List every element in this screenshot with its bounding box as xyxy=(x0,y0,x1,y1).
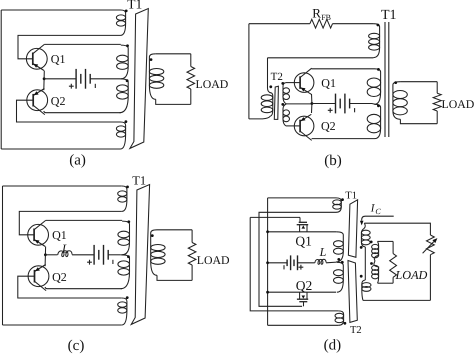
phase dot secondary (b) xyxy=(394,81,397,84)
wire load lead bottom (b) xyxy=(436,111,438,124)
wire load loop top (d) xyxy=(378,240,394,242)
wire emitter junction (a) xyxy=(43,71,46,91)
svg-text:T1: T1 xyxy=(127,0,142,11)
wire node to battery (b) xyxy=(312,103,336,105)
wire T1 top winding to Q2 gate (d) xyxy=(259,212,336,306)
node emitter junction (b) xyxy=(311,102,314,105)
transformer T1 winding W2 (a) xyxy=(122,221,129,255)
wire inductor to battery (c) xyxy=(72,254,94,256)
phase dot T2 winding (d) xyxy=(344,322,347,325)
svg-text:Q2: Q2 xyxy=(321,119,336,133)
variable resistor arrow (d) xyxy=(423,242,434,254)
phase dot T1 top winding (d) xyxy=(341,198,344,201)
wire secondary bottom (b) xyxy=(400,119,437,123)
wire Q2 collector to W3 (a) xyxy=(44,111,121,113)
phase dot secondary (a) xyxy=(150,58,153,61)
wire bottom feedback (a) xyxy=(1,148,120,150)
transformer T1 winding W4 (a) xyxy=(121,122,126,149)
wire Q2 collector to W3 (a) xyxy=(45,287,122,289)
svg-text:LOAD: LOAD xyxy=(196,77,229,91)
svg-text:LOAD: LOAD xyxy=(197,253,230,267)
wire node to battery (a) xyxy=(44,78,76,80)
battery minus tick (b) xyxy=(354,108,356,112)
transformer T1 winding W3 (a) xyxy=(121,255,130,289)
transformer T1 secondary winding (a) xyxy=(149,54,155,100)
transistor Q2 (a) xyxy=(28,265,49,291)
transformer T1 winding W1 (a) xyxy=(121,10,126,35)
transistor Q1 (a) xyxy=(26,44,47,70)
svg-text:(a): (a) xyxy=(69,152,86,168)
wire emitter junction (b) xyxy=(311,94,313,113)
phase dot secondary top (d) xyxy=(360,246,363,249)
transformer T1 core line 2 (b) xyxy=(388,22,390,137)
svg-text:Q1: Q1 xyxy=(51,52,66,66)
wire Q1 collector to W2 (b) xyxy=(312,68,375,70)
wire left outer (a) xyxy=(0,10,2,149)
transformer T1 winding W4 (a) xyxy=(122,298,127,325)
wire T2 tap to node (b) xyxy=(286,103,312,105)
wire RFB to T1 (b) xyxy=(333,23,374,25)
wire Q2 base loop (a) xyxy=(17,100,121,122)
phase dot load winding mid (d) xyxy=(370,262,373,265)
wire secondary right (d) xyxy=(429,255,431,301)
svg-text:R: R xyxy=(312,5,321,20)
wire secondary bottom (a) xyxy=(156,99,191,104)
phase dot T2 primary (b) xyxy=(269,85,272,88)
wire Q1 base loop (a) xyxy=(18,35,121,58)
battery minus tick (c) xyxy=(112,260,114,264)
svg-text:Q2: Q2 xyxy=(296,278,313,293)
wire emitter junction (a) xyxy=(44,247,47,267)
wire secondary top (a) xyxy=(156,53,191,55)
transformer T1 winding W2 (a) xyxy=(121,45,128,79)
transformer T1 winding W3 (a) xyxy=(120,79,129,113)
transformer T1 core (a) xyxy=(131,185,149,325)
node rail-Q1 (d) xyxy=(266,230,269,233)
wire Q1 gate feedback (d) xyxy=(250,216,300,218)
phase dot lower primary (d) xyxy=(341,261,344,264)
wire RFB left (b) xyxy=(249,23,310,25)
svg-text:T1: T1 xyxy=(132,174,146,188)
transistor Q1 (b) xyxy=(294,68,314,94)
svg-text:Q1: Q1 xyxy=(295,234,312,249)
svg-text:Q2: Q2 xyxy=(51,94,66,108)
wire secondary bottom (d) xyxy=(363,299,430,301)
inductor L (d) xyxy=(315,259,326,264)
transformer T2 core (b) xyxy=(274,86,278,119)
svg-text:C: C xyxy=(375,207,381,216)
transformer T1 core line 1 (b) xyxy=(384,22,386,137)
svg-text:T1: T1 xyxy=(381,8,397,23)
phase dot W2 (b) xyxy=(377,68,380,71)
resistor RFB (b) xyxy=(310,19,333,28)
wire top to T1 winding (d) xyxy=(268,197,336,199)
phase dot W3 (a) xyxy=(127,255,130,258)
wire Q1 base loop (a) xyxy=(19,211,122,234)
load coupling winding (d) xyxy=(374,241,379,283)
phase dot W3 (b) xyxy=(377,104,380,107)
transistor Q2 (b) xyxy=(294,114,314,140)
svg-text:L: L xyxy=(319,245,327,259)
transformer T2 secondary bottom winding (b) xyxy=(283,104,286,126)
transformer T2 core (d) xyxy=(348,261,357,323)
phase dot W1 (a) xyxy=(126,186,129,189)
phase dot W1 (b) xyxy=(377,24,380,27)
phase dot load winding top (d) xyxy=(370,241,373,244)
wire Q2 channel rail (d) xyxy=(268,291,337,293)
transformer T1 winding W1 (a) xyxy=(122,186,127,211)
wire rail to battery (d) xyxy=(268,262,288,264)
phase dot W4 (a) xyxy=(125,120,128,123)
transformer T2 feedback winding (d) xyxy=(338,311,343,325)
wire Q2 collector to W3 (b) xyxy=(312,138,375,140)
wire load lead bottom (a) xyxy=(191,265,193,280)
wire secondary top (d) xyxy=(364,222,430,224)
wire Q1 base (b) xyxy=(286,82,300,84)
wire load lead top (a) xyxy=(191,230,193,243)
wire left outer (a) xyxy=(2,186,4,325)
wire T2 to W1 bottom (b) xyxy=(268,57,374,59)
wire bottom feedback (a) xyxy=(3,324,122,326)
battery B1 (d) xyxy=(286,260,288,267)
wire secondary bottom (a) xyxy=(157,275,192,280)
resistor LOAD (b) xyxy=(433,93,441,111)
wire node to inductor (c) xyxy=(45,254,57,256)
transformer T1 secondary winding (a) xyxy=(151,230,157,275)
phase dot W4 (a) xyxy=(126,296,129,299)
transformer T1 core (a) xyxy=(130,9,148,149)
wire main left rail (d) xyxy=(267,198,269,325)
wire load lead top (b) xyxy=(436,82,438,94)
node emitter junction (a) xyxy=(43,77,46,80)
wire center tap jog (b) xyxy=(372,103,375,106)
svg-text:T2: T2 xyxy=(350,325,362,336)
svg-text:FB: FB xyxy=(321,13,331,22)
wire load lead top (a) xyxy=(190,54,192,67)
transistor Q2 (d) xyxy=(297,292,308,306)
transformer T2 secondary top winding (b) xyxy=(283,83,286,104)
inductor L (c) xyxy=(58,251,72,257)
transformer T1 core (d) xyxy=(348,200,357,257)
wire T2 primary top lead (b) xyxy=(268,58,272,93)
battery minus tick (d) xyxy=(283,265,285,269)
transformer T1 upper primary winding (d) xyxy=(336,232,343,262)
transformer T1 secondary winding (d) xyxy=(361,223,365,247)
wire secondary mid link (d) xyxy=(364,247,366,280)
node emitter junction (a) xyxy=(44,253,47,256)
wire top feedback (a) xyxy=(1,9,120,11)
phase dot secondary bottom (d) xyxy=(360,275,363,278)
wire left feedback to T2 winding (d) xyxy=(250,217,338,311)
node rail-battery (d) xyxy=(266,261,269,264)
transformer T1 top winding (d) xyxy=(336,198,341,212)
transformer T1 winding W2 (b) xyxy=(375,69,381,105)
wire Q2 base loop (a) xyxy=(18,276,122,298)
wire battery to center tap (a) xyxy=(90,78,119,80)
wire Q1 collector to W2 (a) xyxy=(46,219,122,221)
transformer T1 winding W3 (b) xyxy=(375,104,381,138)
phase dot W2 (a) xyxy=(126,44,129,47)
phase dot W2 (a) xyxy=(127,220,130,223)
node rail-Q2 (d) xyxy=(266,291,269,294)
wire to T2 primary bottom (b) xyxy=(249,116,271,119)
current arrow Ic (d) xyxy=(362,216,394,220)
wire top feedback (a) xyxy=(3,185,122,187)
svg-text:T2: T2 xyxy=(271,71,283,83)
phase dot upper primary (d) xyxy=(337,258,340,261)
wire load lead bottom (a) xyxy=(190,89,192,104)
resistor LOAD (a) xyxy=(188,243,196,266)
transistor Q1 (a) xyxy=(28,220,49,246)
transformer T2 primary winding (b) xyxy=(270,93,272,116)
wire variable resistor lead top (d) xyxy=(429,223,431,235)
wire battery to center tap (c) xyxy=(108,254,121,256)
resistor LOAD (d) xyxy=(390,254,397,278)
svg-text:Q1: Q1 xyxy=(321,76,336,90)
transformer T1 secondary winding (b) xyxy=(393,82,401,120)
phase dot W1 (a) xyxy=(125,10,128,13)
transformer T1 lower primary winding (d) xyxy=(337,262,343,292)
svg-text:LOAD: LOAD xyxy=(442,97,474,111)
svg-text:T1: T1 xyxy=(345,190,357,201)
variable resistor (d) xyxy=(427,235,435,255)
wire Q1 collector to W2 (a) xyxy=(44,43,120,45)
resistor LOAD (a) xyxy=(187,67,195,90)
svg-text:(d): (d) xyxy=(324,337,342,353)
wire load lead bottom (d) xyxy=(392,277,394,283)
battery B1 (b) xyxy=(335,94,337,114)
wire left vertical (b) xyxy=(248,24,250,119)
phase dot T2 secondary bottom (b) xyxy=(281,103,284,106)
wire inductor to center tap (d) xyxy=(326,261,337,264)
svg-text:L: L xyxy=(61,241,69,255)
svg-text:Q2: Q2 xyxy=(52,270,67,284)
transformer T1 winding W1 (b) xyxy=(373,24,379,58)
wire secondary top (b) xyxy=(400,81,437,83)
wire bottom to T2 winding (d) xyxy=(268,324,339,326)
transformer T2 secondary winding (d) xyxy=(362,280,366,300)
svg-text:LOAD: LOAD xyxy=(395,268,428,282)
circuit (a) push-pull oscillator xyxy=(1,9,229,150)
wire battery to inductor (d) xyxy=(298,262,315,264)
wire Q2 base (b) xyxy=(286,125,300,127)
phase dot W3 (a) xyxy=(126,79,129,82)
circuit (c) push-pull oscillator with emitter inductor xyxy=(3,185,231,326)
battery B1 (c) xyxy=(93,245,95,265)
phase dot secondary (a) xyxy=(151,234,154,237)
svg-text:(b): (b) xyxy=(324,153,342,169)
battery minus tick (a) xyxy=(94,84,96,88)
wire battery to center tap (b) xyxy=(350,103,372,105)
svg-text:(c): (c) xyxy=(68,338,85,354)
wire Q1 channel rail (d) xyxy=(268,231,337,233)
phase dot T2 secondary top (b) xyxy=(281,82,284,85)
wire load lead top (d) xyxy=(392,241,394,253)
wire load loop bottom (d) xyxy=(378,282,394,284)
wire secondary top (a) xyxy=(157,229,192,231)
svg-text:Q1: Q1 xyxy=(52,228,67,242)
battery B1 (a) xyxy=(75,69,77,89)
transistor Q2 (a) xyxy=(27,89,48,115)
transistor Q1 (d) xyxy=(297,217,309,231)
